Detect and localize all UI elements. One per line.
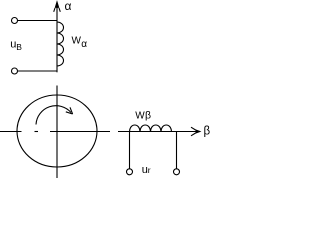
beta axis arrowhead: [191, 127, 200, 136]
wire (right drop to terminal): [176, 132, 178, 169]
horizontal axis dash (right segment through rotor): [50, 131, 110, 133]
svg-text:r: r: [148, 165, 151, 175]
beta axis line with winding: [118, 131, 200, 133]
wire (bottom, terminal to coil): [18, 70, 57, 72]
winding W_beta (4-hump coil on axis): [130, 125, 172, 131]
svg-text:β: β: [145, 110, 151, 122]
svg-text:W: W: [72, 35, 82, 46]
terminal (u_r left): [127, 169, 133, 175]
winding W_alpha (4-hump coil): [57, 22, 64, 66]
svg-text:α: α: [65, 0, 72, 13]
rotor (circle): [17, 95, 97, 167]
terminal (top left): [12, 18, 18, 24]
horizontal axis dot (center dash): [35, 131, 39, 133]
vertical axis line through rotor: [56, 86, 58, 179]
wire (left drop to terminal): [129, 132, 131, 169]
rotation arrow (clockwise arc inside rotor): [36, 106, 73, 125]
svg-text:α: α: [81, 39, 87, 50]
svg-text:B: B: [16, 42, 22, 52]
terminal (bottom left): [12, 68, 18, 74]
alpha axis arrow (vertical line with arrowhead): [54, 2, 61, 73]
svg-text:β: β: [204, 126, 211, 138]
terminal (u_r right): [174, 169, 180, 175]
horizontal axis dash (left segment): [0, 131, 22, 133]
wire (top, terminal to coil): [18, 20, 57, 22]
svg-text:W: W: [135, 111, 145, 122]
